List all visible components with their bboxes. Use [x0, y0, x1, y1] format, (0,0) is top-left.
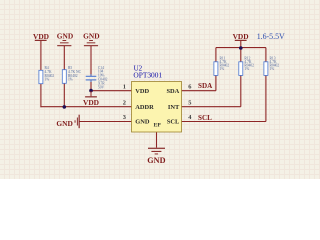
svg-text:GND: GND: [147, 156, 165, 165]
svg-text:VDD: VDD: [233, 32, 249, 41]
svg-text:1%: 1%: [270, 67, 275, 71]
voltage note 1.6-5.5V: [257, 32, 285, 41]
wire VDD net to pin 1: [91, 90, 132, 92]
junction on VDD net at C14: [89, 89, 93, 93]
power flag VDD (below pin1 wire): [83, 91, 99, 107]
svg-text:GND: GND: [56, 119, 72, 128]
IC U2 body: [132, 82, 182, 133]
svg-text:VDD: VDD: [83, 98, 99, 107]
resistor R4: [39, 66, 54, 84]
resistor R11: [214, 56, 229, 75]
wire GND to R5 top: [63, 46, 65, 70]
wire rail to R13 top: [265, 48, 267, 62]
svg-text:SDA: SDA: [198, 82, 213, 90]
wire INT net pin5: [182, 106, 241, 108]
svg-text:EP: EP: [154, 123, 162, 129]
svg-text:SCL: SCL: [198, 114, 212, 122]
wire SDA net pin6: [182, 90, 216, 92]
wire rail to R11 top: [215, 48, 217, 62]
wire VDD rail (top-right horizontal): [216, 47, 266, 49]
wire SCL net pin4: [182, 121, 266, 123]
resistor R12: [239, 56, 254, 75]
svg-text:2: 2: [123, 99, 126, 106]
svg-text:GND: GND: [83, 31, 99, 40]
wire R5 bottom down to ADDR net: [63, 83, 65, 106]
svg-text:1%: 1%: [244, 67, 249, 71]
ground GND (below IC, EP): [147, 148, 165, 165]
IC U2 designator: [133, 64, 162, 79]
pin 6 SDA label: [167, 83, 193, 94]
svg-text:50V: 50V: [98, 85, 105, 89]
resistor R5: [62, 66, 81, 83]
svg-text:SDA: SDA: [167, 88, 180, 95]
svg-text:1: 1: [123, 83, 126, 90]
wire EP pin to ground: [156, 132, 158, 148]
svg-text:INT: INT: [168, 104, 180, 111]
svg-text:3: 3: [123, 114, 126, 121]
wire VDD flag stem (top-right): [240, 41, 242, 48]
pin 2 ADDR label: [123, 99, 154, 111]
svg-text:5: 5: [188, 99, 191, 106]
pin 3 GND label: [123, 114, 150, 125]
wire GND to pin 3: [79, 121, 131, 123]
pin 1 VDD label: [123, 83, 150, 94]
net label SCL: [198, 114, 212, 122]
wire R4 bottom down to ADDR net: [40, 84, 42, 108]
ground GND (top, above R5): [57, 31, 73, 46]
power flag VDD (top-right): [233, 32, 249, 41]
svg-text:SCL: SCL: [167, 119, 179, 126]
svg-text:1.6-5.5V: 1.6-5.5V: [257, 32, 285, 41]
resistor R13: [264, 56, 279, 75]
capacitor C14: [86, 66, 108, 90]
junction on ADDR net at R5: [63, 105, 67, 109]
ground GND (top, above C14): [83, 31, 99, 46]
svg-text:GND: GND: [57, 31, 73, 40]
net label SDA: [198, 82, 213, 90]
wire C14 bottom to VDD junction: [90, 81, 92, 92]
svg-text:OPT3001: OPT3001: [133, 71, 162, 80]
svg-text:VDD: VDD: [33, 32, 49, 41]
svg-text:VDD: VDD: [135, 88, 149, 95]
pin 4 SCL label: [167, 114, 192, 125]
ground GND (left of pin 3, rotated): [56, 115, 79, 129]
svg-text:ADDR: ADDR: [135, 104, 154, 111]
svg-text:1%: 1%: [45, 78, 50, 82]
svg-text:GND: GND: [135, 119, 150, 126]
wire R11 bottom to SDA net: [215, 75, 217, 90]
svg-text:1%: 1%: [68, 78, 73, 82]
wire rail to R12 top: [240, 48, 242, 62]
svg-text:1%: 1%: [220, 67, 225, 71]
wire ADDR net to pin 2: [40, 106, 131, 108]
wire R13 bottom to SCL net: [265, 75, 267, 121]
junction on VDD rail: [239, 46, 243, 50]
power flag VDD (top-left, net VDD): [33, 32, 49, 41]
wire GND to C14 top: [90, 46, 92, 76]
wire R12 bottom to INT net: [240, 75, 242, 106]
pin EP label: [154, 123, 162, 129]
wire VDD flag to R4 top: [40, 41, 42, 70]
pin 5 INT label: [168, 99, 192, 111]
